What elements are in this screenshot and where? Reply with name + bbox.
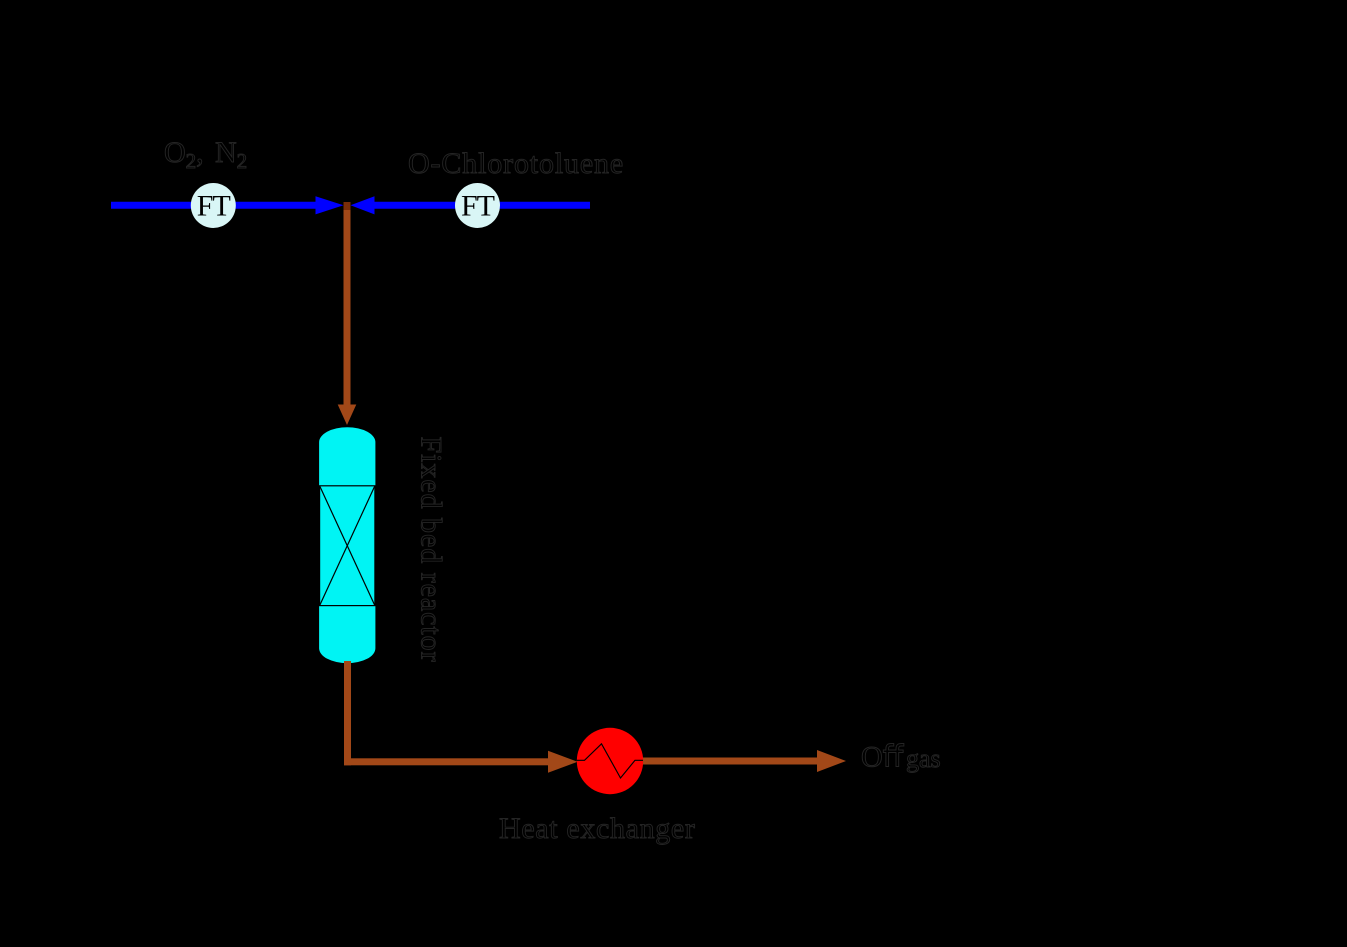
wire blue feed line right: [372, 202, 590, 209]
packed bed X diagonal 1: [320, 486, 375, 606]
flow transmitter FT1 circle: [191, 183, 236, 228]
packed bed X diagonal 2: [320, 486, 375, 606]
svg-text:Fixed bed reactor: Fixed bed reactor: [415, 437, 448, 663]
packed bed section box: [320, 486, 375, 606]
svg-text:Oﬀgas: Oﬀgas: [861, 741, 941, 774]
flow transmitter FT2 circle: [455, 183, 500, 228]
wire blue feed line left: [111, 202, 319, 209]
svg-text:FT: FT: [461, 190, 495, 223]
svg-text:O-Chlorotoluene: O-Chlorotoluene: [408, 147, 624, 180]
vessel fixed bed reactor body: [319, 427, 375, 663]
wire brown horizontal to heat exchanger: [344, 758, 549, 765]
svg-text:FT: FT: [197, 190, 231, 223]
wire brown vertical feed to reactor: [344, 202, 351, 405]
brown arrowhead into reactor top: [338, 405, 357, 426]
svg-text:Heat exchanger: Heat exchanger: [499, 812, 695, 845]
wire brown vertical from reactor bottom: [344, 661, 351, 765]
svg-text:O2,N2: O2,N2: [164, 136, 247, 173]
brown arrowhead off-gas pointing right: [817, 750, 846, 772]
heat exchanger zigzag: [577, 744, 643, 778]
blue arrowhead left pointing right: [316, 196, 344, 214]
brown arrowhead into heat exchanger: [548, 751, 578, 773]
heat exchanger circle: [577, 728, 643, 794]
junction mixing point cap: [344, 202, 351, 210]
wire brown out of heat exchanger: [643, 758, 818, 765]
blue arrowhead right pointing left: [351, 196, 375, 214]
